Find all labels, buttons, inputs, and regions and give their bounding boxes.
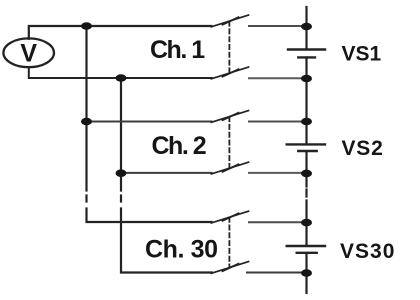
svg-text:Ch. 30: Ch. 30 [145, 235, 218, 263]
voltmeter V [3, 38, 54, 67]
wire bus1 dashed continuation [85, 196, 87, 202]
wire Ch2 top rail left [87, 121, 212, 123]
switch link dashed Ch30 [228, 218, 230, 268]
wire right bus below VS2 [305, 151, 307, 186]
wire Ch2 bottom rail left [121, 172, 212, 174]
wire bus2 dashed continuation [120, 196, 122, 202]
node bus1/Ch1-top junction [81, 22, 92, 30]
switch link dashed Ch2 [228, 117, 230, 168]
wire right bus top stub [305, 7, 307, 49]
wire right bus dashed continuation [305, 190, 307, 207]
switch S1b (Ch1 bottom) [211, 67, 248, 79]
wire Ch1 top rail right [249, 25, 307, 27]
battery VS1 [288, 50, 325, 58]
wire Ch2 top rail right [249, 121, 307, 123]
node right bus VS1- junction [301, 75, 312, 83]
switch S2a (Ch2 top) [211, 111, 248, 123]
svg-text:VS1: VS1 [342, 42, 382, 65]
battery VS2 [287, 144, 325, 151]
switch S2b (Ch2 bottom) [211, 162, 248, 174]
switch S30b (Ch30 bottom) [211, 262, 248, 274]
wire Ch2 bottom rail right [249, 172, 307, 174]
wire bus1 upper segment [85, 26, 87, 191]
wire voltmeter top to Ch1 top rail [29, 26, 212, 39]
wire right bus bottom stub [305, 253, 307, 293]
svg-text:Ch. 2: Ch. 2 [152, 132, 206, 160]
battery VS30 [287, 246, 325, 253]
wire bus2 upper segment [120, 78, 122, 191]
node right bus VS30+ junction [301, 219, 312, 227]
switch S1a (Ch1 top) [211, 15, 248, 27]
svg-text:VS30: VS30 [340, 240, 395, 263]
node bus1/Ch2-top junction [81, 118, 92, 126]
node bus2/Ch2-bottom junction [116, 169, 127, 177]
svg-text:VS2: VS2 [342, 137, 384, 160]
wire voltmeter bottom to Ch1 bottom rail [29, 67, 212, 78]
switch link dashed Ch1 [228, 22, 230, 73]
node bus2/Ch1-bottom junction [116, 74, 127, 82]
wire right bus to VS30 [305, 209, 307, 246]
node right bus VS1+ junction [301, 23, 312, 31]
wire Ch30 bottom rail right [247, 272, 307, 274]
node right bus VS30- junction [301, 269, 312, 277]
wire Ch30 top rail right [249, 221, 307, 223]
wire right bus VS1 to VS2 [305, 58, 307, 145]
switch S30a (Ch30 top) [211, 211, 248, 223]
node right bus VS2- junction [301, 170, 312, 178]
svg-text:V: V [20, 40, 37, 68]
svg-text:Ch. 1: Ch. 1 [150, 36, 205, 64]
wire bus2 lower elbow to Ch30 bottom rail [121, 209, 212, 273]
node right bus VS2+ junction [301, 118, 312, 126]
wire Ch1 bottom rail right [249, 77, 307, 79]
wire bus1 lower elbow to Ch30 top rail [87, 209, 212, 223]
